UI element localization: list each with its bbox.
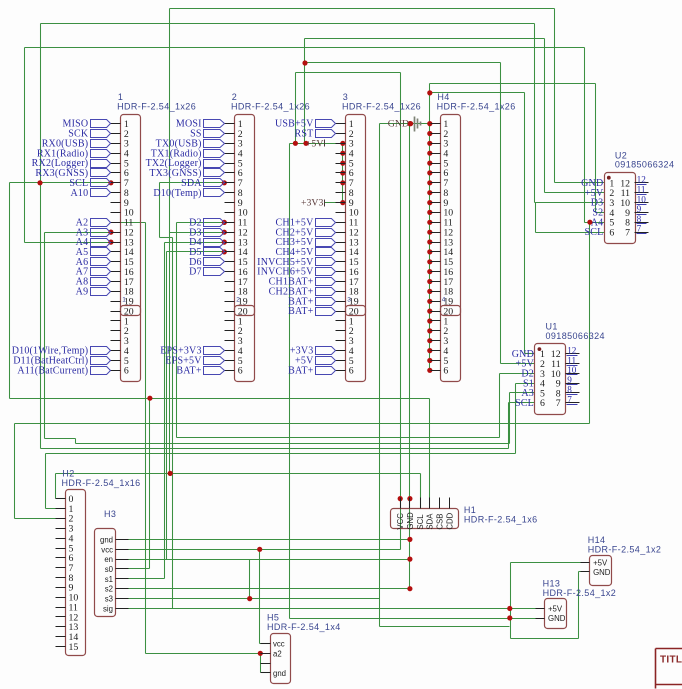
net label TX2(Logger) bbox=[146, 158, 225, 169]
svg-text:s1: s1 bbox=[105, 575, 113, 584]
svg-text:6: 6 bbox=[540, 398, 545, 409]
svg-text:09185066324: 09185066324 bbox=[546, 331, 605, 341]
net label A6 bbox=[76, 257, 111, 268]
IC U1 xref labels bbox=[567, 346, 578, 405]
connector H14 designator bbox=[588, 535, 606, 545]
net label BAT+ bbox=[176, 365, 224, 376]
wire net A4 bbox=[25, 242, 121, 244]
svg-text:11: 11 bbox=[637, 185, 646, 195]
svg-text:SCL: SCL bbox=[515, 398, 534, 409]
connector H5 value bbox=[267, 622, 341, 632]
wire net C top bbox=[305, 39, 545, 144]
connector 2 body bbox=[235, 115, 255, 382]
svg-text:11: 11 bbox=[567, 355, 576, 365]
svg-text:7: 7 bbox=[625, 227, 630, 238]
net label +5V bbox=[295, 356, 335, 367]
IC U2 left net labels bbox=[581, 178, 604, 238]
svg-text:09185066324: 09185066324 bbox=[615, 160, 674, 170]
connector H4 value bbox=[437, 102, 516, 112]
svg-text:s0: s0 bbox=[105, 565, 114, 574]
wire net G top bbox=[430, 84, 596, 213]
net label D2 bbox=[189, 217, 224, 228]
connector 3 body bbox=[346, 115, 366, 382]
net label A10 bbox=[70, 188, 110, 199]
svg-text:8: 8 bbox=[637, 214, 642, 224]
wire net D5 bbox=[167, 252, 235, 560]
svg-text:s3: s3 bbox=[105, 595, 113, 604]
svg-text:6: 6 bbox=[349, 366, 354, 377]
connector H1 body bbox=[391, 509, 459, 529]
svg-text:1: 1 bbox=[122, 297, 126, 304]
wire net H top bbox=[430, 93, 525, 354]
net label CH1BAT+ bbox=[269, 277, 336, 288]
wire net H2pin2 bbox=[15, 223, 590, 519]
IC U2 value bbox=[615, 160, 674, 170]
connector H5 pin names bbox=[273, 639, 286, 678]
svg-text:HDR-F-2.54_1x26: HDR-F-2.54_1x26 bbox=[437, 102, 516, 112]
IC U2 right pin stubs bbox=[635, 183, 649, 233]
wire net U1 D2 row bbox=[500, 373, 535, 375]
connector H13 pin names bbox=[548, 605, 566, 624]
net label CH1+5V bbox=[276, 217, 336, 228]
wire net F top bbox=[296, 73, 401, 144]
svg-text:HDR-F-2.54_1x4: HDR-F-2.54_1x4 bbox=[267, 622, 341, 632]
svg-text:6: 6 bbox=[238, 366, 243, 377]
connector 3 gate2 designator bbox=[347, 297, 351, 304]
svg-text:BAT+: BAT+ bbox=[288, 365, 313, 376]
supply label +3V3 pin9 bbox=[301, 198, 325, 209]
IC U2 right pin numbers bbox=[620, 178, 630, 238]
IC U2 pin1 marker bbox=[607, 176, 611, 180]
wire net U2 SCL row bbox=[536, 232, 605, 234]
connector H4 designator bbox=[437, 92, 449, 102]
title block text bbox=[660, 655, 682, 666]
wire net s3 H3 bbox=[129, 560, 380, 599]
wire net SCL header1 bbox=[10, 183, 430, 509]
wire net U2 GND row bbox=[555, 9, 605, 183]
net label A5 bbox=[76, 247, 111, 258]
net label A4 bbox=[76, 237, 111, 248]
wire net H2pin0 bbox=[56, 474, 421, 509]
svg-text:3: 3 bbox=[347, 297, 351, 304]
svg-text:TITLE: TITLE bbox=[660, 655, 682, 666]
wire net H13-H14 link bbox=[511, 563, 581, 639]
net label A9 bbox=[76, 287, 111, 298]
wire net vcc H3 bbox=[129, 549, 401, 551]
svg-text:HDR-F-2.54_1x26: HDR-F-2.54_1x26 bbox=[342, 102, 421, 112]
connector H4 body bbox=[441, 115, 461, 382]
wire net H5 gnd bbox=[261, 654, 271, 673]
svg-text:CSB: CSB bbox=[436, 514, 445, 530]
connector H4 pin numbers bbox=[443, 119, 453, 377]
svg-text:en: en bbox=[104, 555, 113, 564]
net label INVCH5+5V bbox=[257, 257, 335, 268]
connector H1 designator bbox=[464, 505, 476, 515]
net label BAT+ bbox=[288, 365, 335, 376]
net label MOSI bbox=[176, 119, 225, 130]
net label A2 bbox=[76, 217, 111, 228]
net label SCL bbox=[69, 178, 110, 189]
svg-text:+5V: +5V bbox=[548, 605, 563, 614]
connector H3 body bbox=[95, 529, 116, 617]
connector 1 gate2 designator bbox=[122, 297, 126, 304]
wire net U2 D3 row bbox=[535, 24, 605, 233]
net label A11(BatCurrent) bbox=[17, 365, 110, 376]
wire net +5V column bbox=[290, 144, 346, 619]
svg-text:gnd: gnd bbox=[100, 535, 113, 544]
net label A7 bbox=[76, 267, 111, 278]
wire net gnd H3 bbox=[129, 539, 410, 541]
net label BAT+ bbox=[288, 296, 335, 307]
connector 2 designator bbox=[232, 92, 237, 102]
svg-text:VCC: VCC bbox=[396, 513, 405, 530]
net label D10(1Wire,Temp) bbox=[12, 346, 111, 357]
svg-text:HDR-F-2.54_1x6: HDR-F-2.54_1x6 bbox=[464, 514, 538, 524]
svg-text:CDD: CDD bbox=[445, 512, 454, 529]
IC U2 body bbox=[605, 173, 636, 244]
wire net H2pin1 bbox=[46, 384, 516, 509]
svg-text:6: 6 bbox=[124, 366, 129, 377]
svg-text:15: 15 bbox=[69, 642, 79, 653]
wire net U1 SCL row bbox=[509, 402, 535, 404]
connector H14 pin names bbox=[593, 558, 611, 577]
net label A3 bbox=[76, 227, 111, 238]
svg-text:BAT+: BAT+ bbox=[288, 306, 313, 317]
wire net en H3 bbox=[129, 559, 410, 561]
net label D7 bbox=[189, 267, 224, 278]
net label A8 bbox=[76, 277, 111, 288]
supply label +5V pin3 bbox=[306, 138, 325, 149]
IC U1 right pin stubs bbox=[566, 354, 580, 403]
svg-text:vcc: vcc bbox=[101, 545, 113, 554]
IC U1 designator bbox=[546, 322, 558, 332]
svg-text:A9: A9 bbox=[76, 287, 89, 298]
svg-text:vcc: vcc bbox=[273, 639, 285, 648]
net label USB+5V bbox=[275, 119, 336, 130]
svg-text:10: 10 bbox=[637, 194, 647, 204]
svg-text:2: 2 bbox=[236, 297, 240, 304]
connector H4 gate2 designator bbox=[442, 297, 446, 304]
wire net H13 GND row bbox=[290, 618, 545, 620]
wire net s0 bbox=[129, 399, 150, 569]
connector 2 pins bbox=[225, 124, 235, 371]
wire net U2 +5V row bbox=[545, 39, 605, 193]
svg-text:HDR-F-2.54_1x16: HDR-F-2.54_1x16 bbox=[62, 478, 141, 488]
svg-text:HDR-F-2.54_1x2: HDR-F-2.54_1x2 bbox=[588, 544, 662, 554]
svg-text:GND: GND bbox=[593, 568, 611, 577]
svg-text:12: 12 bbox=[637, 175, 647, 185]
connector H3 pins bbox=[116, 540, 129, 609]
connector 1 designator bbox=[118, 92, 123, 102]
svg-text:GND: GND bbox=[388, 119, 409, 130]
wire net H1 VCC GND verticals bbox=[401, 497, 410, 509]
net label CH3+5V bbox=[276, 237, 336, 248]
svg-text:SCL: SCL bbox=[416, 514, 425, 530]
connector 1 body bbox=[121, 115, 141, 382]
net label D6 bbox=[189, 257, 224, 268]
svg-text:GND: GND bbox=[548, 614, 566, 623]
wire net SDA header2 bbox=[160, 183, 235, 609]
connector 3 pin numbers bbox=[349, 119, 359, 377]
net label SDA bbox=[181, 178, 224, 189]
IC U1 right pin numbers bbox=[551, 349, 561, 409]
connector H2 pin numbers bbox=[69, 494, 79, 653]
net label CH2+5V bbox=[276, 227, 336, 238]
wire net U1 S1 row bbox=[516, 383, 535, 385]
wire net H1 SCL stub bbox=[420, 474, 422, 509]
net label CH4+5V bbox=[276, 247, 336, 258]
wire net SCL-B lower bbox=[41, 403, 509, 449]
net label EPS+3V3 bbox=[160, 346, 224, 357]
svg-text:+5V: +5V bbox=[306, 138, 324, 149]
net label SS bbox=[190, 129, 224, 140]
connector 2 pin numbers bbox=[238, 119, 248, 377]
connector H2 pins bbox=[56, 499, 66, 647]
connector H14 pins bbox=[581, 563, 590, 572]
connector H1 pins bbox=[401, 498, 450, 509]
svg-text:SDA: SDA bbox=[426, 513, 435, 530]
wire net +3V3 pin9 bbox=[325, 202, 346, 204]
svg-text:+3V3: +3V3 bbox=[301, 198, 323, 209]
net label TX1(Radio) bbox=[151, 148, 225, 159]
wire net A3 bbox=[45, 233, 510, 444]
connector 3 designator bbox=[343, 92, 348, 102]
svg-text:sig: sig bbox=[103, 605, 113, 614]
connector H2 value bbox=[62, 478, 141, 488]
wire net GND main bbox=[380, 73, 430, 627]
svg-text:BAT+: BAT+ bbox=[176, 365, 201, 376]
net label TX3(GNSS) bbox=[149, 168, 224, 179]
net label D11(BatHeatCtrl) bbox=[13, 356, 110, 367]
svg-text:10: 10 bbox=[567, 365, 577, 375]
connector H13 designator bbox=[543, 578, 561, 588]
net label EPS+5V bbox=[165, 356, 224, 367]
connector 1 pins bbox=[111, 124, 121, 371]
net label RX1(Radio) bbox=[37, 148, 111, 159]
net label +3V3 bbox=[290, 346, 336, 357]
net label RST bbox=[295, 129, 336, 140]
connector H3 designator bbox=[104, 509, 116, 519]
svg-text:D10(Temp): D10(Temp) bbox=[153, 188, 201, 199]
svg-text:a2: a2 bbox=[273, 649, 282, 658]
svg-text:7: 7 bbox=[637, 224, 642, 234]
connector 1 pin numbers bbox=[124, 119, 134, 377]
wire net SCL-B top bbox=[41, 24, 535, 449]
ground GND at H4 pin1 bbox=[388, 117, 421, 132]
connector H5 pins bbox=[261, 644, 271, 673]
wire net s1 H3 bbox=[129, 578, 165, 580]
wire net D4 bbox=[165, 243, 235, 579]
svg-text:D7: D7 bbox=[189, 267, 202, 278]
net label CH2BAT+ bbox=[269, 287, 336, 298]
IC U1 body bbox=[535, 344, 566, 415]
svg-text:4: 4 bbox=[442, 297, 446, 304]
connector H14 value bbox=[588, 544, 662, 554]
wire net U1 GND row bbox=[525, 353, 535, 355]
connector H2 designator bbox=[62, 468, 74, 478]
svg-text:+5V: +5V bbox=[593, 558, 608, 567]
wire net D3 branch bbox=[170, 9, 235, 474]
svg-text:6: 6 bbox=[443, 366, 448, 377]
wire net U1 +5V row bbox=[501, 363, 535, 365]
IC U1 value bbox=[546, 331, 605, 341]
net label MISO bbox=[62, 119, 110, 130]
connector H4 pins bbox=[431, 124, 441, 371]
wire net s2 H3 bbox=[129, 588, 410, 590]
connector 2 gate2 designator bbox=[236, 297, 240, 304]
svg-text:7: 7 bbox=[567, 395, 572, 405]
net label RX0(USB) bbox=[42, 138, 111, 149]
connector H13 body bbox=[545, 599, 567, 629]
wire net D2 bbox=[177, 223, 500, 438]
connector H13 pins bbox=[536, 609, 545, 619]
IC U1 pin1 marker bbox=[538, 347, 542, 351]
svg-text:GND: GND bbox=[406, 512, 415, 530]
svg-text:12: 12 bbox=[567, 346, 577, 356]
net label INVCH6+5V bbox=[257, 267, 335, 278]
net label D10(Temp) bbox=[153, 188, 224, 199]
IC U2 xref labels bbox=[637, 175, 647, 234]
connector H5 designator bbox=[267, 613, 279, 623]
svg-text:6: 6 bbox=[609, 227, 614, 238]
connector 2 value bbox=[231, 102, 310, 112]
net label TX0(USB) bbox=[156, 138, 225, 149]
svg-text:7: 7 bbox=[556, 398, 561, 409]
IC U1 left pin numbers bbox=[540, 349, 545, 409]
svg-text:A10: A10 bbox=[70, 188, 88, 199]
wire net U2 A4 row bbox=[585, 48, 605, 223]
connector H1 value bbox=[464, 514, 538, 524]
wire net U1 A3 row bbox=[510, 392, 535, 394]
wire net D top bbox=[25, 48, 585, 243]
net label D4 bbox=[189, 237, 224, 248]
wire net H5 vcc bbox=[260, 550, 271, 644]
svg-text:H3: H3 bbox=[104, 509, 116, 519]
wire net sig H3 bbox=[129, 608, 545, 610]
net label RX3(GNSS) bbox=[35, 168, 110, 179]
connector H1 pin names bbox=[396, 512, 454, 530]
svg-text:8: 8 bbox=[567, 385, 572, 395]
svg-text:gnd: gnd bbox=[273, 669, 286, 678]
title block frame bbox=[656, 649, 682, 689]
svg-text:SCL: SCL bbox=[584, 227, 603, 238]
net label BAT+ bbox=[288, 306, 335, 317]
net label D3 bbox=[189, 227, 224, 238]
net label SCK bbox=[68, 129, 110, 140]
wire net A2 bbox=[111, 223, 271, 654]
IC U1 left net labels bbox=[512, 349, 535, 409]
wire net D3 top bbox=[170, 8, 555, 10]
IC U2 designator bbox=[615, 150, 627, 160]
connector H13 value bbox=[543, 588, 617, 598]
connector H2 body bbox=[66, 490, 86, 656]
connector 1 value bbox=[117, 102, 196, 112]
net label D5 bbox=[189, 247, 224, 258]
wire net GND loop bbox=[380, 626, 510, 628]
svg-text:A11(BatCurrent): A11(BatCurrent) bbox=[17, 365, 88, 376]
connector H14 body bbox=[590, 556, 612, 586]
svg-text:9: 9 bbox=[637, 204, 642, 214]
net label RX2(Logger) bbox=[32, 158, 111, 169]
connector 3 value bbox=[342, 102, 421, 112]
IC U2 left pin numbers bbox=[609, 178, 614, 238]
wire net E top bbox=[305, 63, 501, 364]
wire net U2 S2 row bbox=[596, 212, 605, 214]
svg-text:HDR-F-2.54_1x2: HDR-F-2.54_1x2 bbox=[543, 588, 617, 598]
svg-text:HDR-F-2.54_1x26: HDR-F-2.54_1x26 bbox=[231, 102, 310, 112]
wire net H4 pin column bbox=[429, 84, 431, 371]
connector H3 pin names bbox=[100, 535, 114, 613]
svg-text:s2: s2 bbox=[105, 585, 113, 594]
connector H5 body bbox=[271, 634, 291, 684]
connector 3 pins bbox=[336, 124, 346, 371]
svg-text:9: 9 bbox=[567, 375, 572, 385]
svg-text:HDR-F-2.54_1x26: HDR-F-2.54_1x26 bbox=[117, 102, 196, 112]
